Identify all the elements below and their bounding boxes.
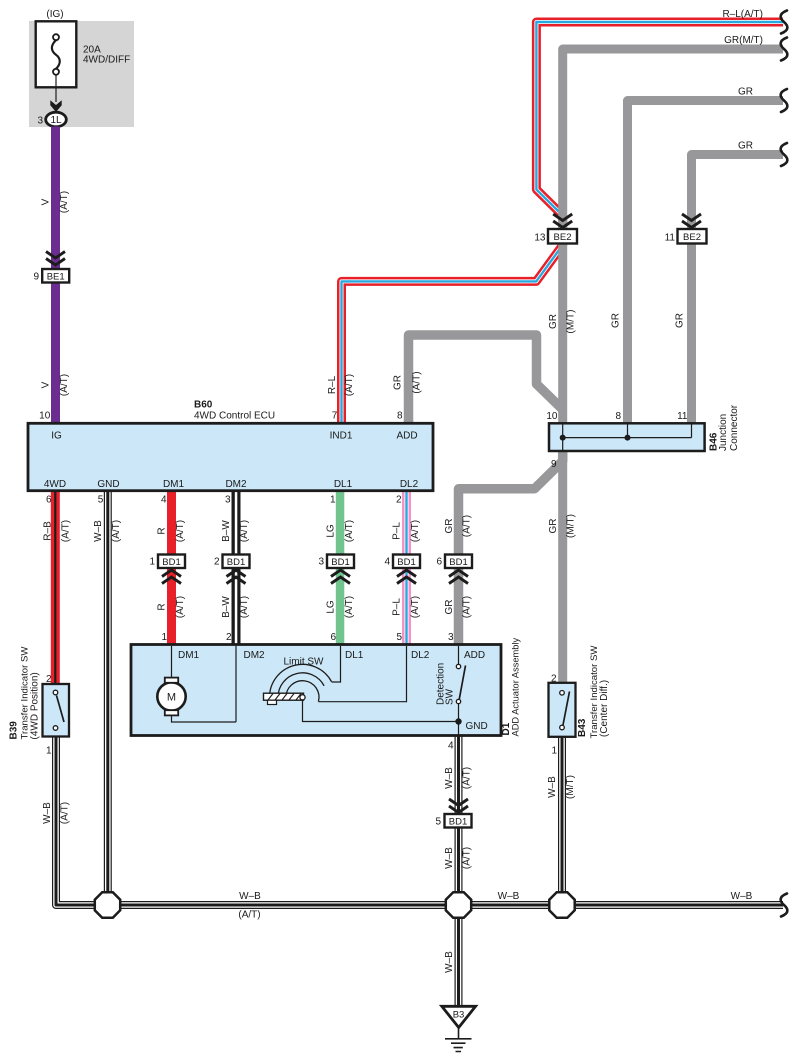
svg-text:(IG): (IG) xyxy=(46,9,63,20)
B43 name label xyxy=(577,645,610,739)
limit switch wiring DL1 xyxy=(332,646,341,682)
svg-text:BD1: BD1 xyxy=(227,557,245,568)
ECU top pin names xyxy=(51,431,417,442)
svg-text:8: 8 xyxy=(615,411,621,422)
svg-text:1: 1 xyxy=(551,746,557,757)
svg-text:SW: SW xyxy=(444,688,455,705)
svg-text:ADD: ADD xyxy=(396,431,417,442)
svg-text:V: V xyxy=(41,198,52,205)
svg-text:2: 2 xyxy=(226,632,232,643)
svg-text:2: 2 xyxy=(214,557,220,568)
svg-text:11: 11 xyxy=(665,233,676,244)
svg-text:BD1: BD1 xyxy=(331,557,349,568)
svg-text:LG: LG xyxy=(326,524,337,538)
label LG (A/T) above BD1 xyxy=(326,520,356,542)
wire R-L from right edge to BE2 xyxy=(536,22,783,230)
wire continuation curl GR upper xyxy=(781,89,788,112)
svg-text:GR: GR xyxy=(393,375,404,390)
svg-text:R: R xyxy=(157,527,168,534)
label R-L (A/T) at IND1 xyxy=(327,374,355,396)
svg-text:1L: 1L xyxy=(50,115,62,126)
fuse 20A 4WD/DIFF xyxy=(36,21,77,87)
svg-text:Junction: Junction xyxy=(718,414,729,451)
ground symbol xyxy=(445,1028,472,1052)
svg-text:BD1: BD1 xyxy=(397,557,415,568)
svg-text:DM2: DM2 xyxy=(244,650,266,661)
svg-text:13: 13 xyxy=(534,233,546,244)
node GND of actuator xyxy=(455,718,487,735)
connector 1L xyxy=(46,112,67,127)
label W-B (M/T) at B43 xyxy=(547,775,576,799)
svg-text:2: 2 xyxy=(396,495,402,506)
wire continuation curl GR(M/T) xyxy=(781,38,788,61)
connector BE1 pin 9 xyxy=(33,269,69,283)
svg-text:5: 5 xyxy=(435,817,441,828)
svg-text:GR(M/T): GR(M/T) xyxy=(724,35,763,46)
svg-text:B39: B39 xyxy=(9,721,20,740)
svg-text:(A/T): (A/T) xyxy=(239,596,250,618)
svg-text:DL1: DL1 xyxy=(334,479,353,490)
ECU bottom pin numbers xyxy=(46,495,402,506)
svg-text:(A/T): (A/T) xyxy=(462,767,473,789)
label W-B (A/T) at GND xyxy=(93,520,122,542)
svg-text:(M/T): (M/T) xyxy=(565,775,576,799)
limit switch arcs xyxy=(270,664,332,701)
svg-text:(A/T): (A/T) xyxy=(175,520,186,542)
svg-text:BD1: BD1 xyxy=(449,816,467,827)
svg-text:(A/T): (A/T) xyxy=(175,596,186,618)
svg-text:W–B: W–B xyxy=(444,951,455,973)
svg-text:(A/T): (A/T) xyxy=(344,596,355,618)
wire GR third xyxy=(692,155,784,425)
svg-text:7: 7 xyxy=(332,410,338,421)
svg-text:DM1: DM1 xyxy=(163,479,185,490)
svg-text:W–B: W–B xyxy=(42,802,53,824)
svg-text:GR: GR xyxy=(444,519,455,534)
svg-text:GR: GR xyxy=(611,313,622,328)
limit switch hatched bar xyxy=(264,693,304,704)
label V (A/T) above BE1 xyxy=(41,191,71,213)
wire GR(M/T) main vertical xyxy=(563,49,783,683)
svg-text:BE2: BE2 xyxy=(683,232,701,243)
svg-text:(A/T): (A/T) xyxy=(462,515,473,537)
svg-text:2: 2 xyxy=(46,674,52,685)
svg-text:GR: GR xyxy=(444,600,455,615)
svg-text:B–W: B–W xyxy=(221,520,232,542)
svg-text:(A/T): (A/T) xyxy=(60,802,71,824)
svg-text:1: 1 xyxy=(161,632,167,643)
svg-text:GR: GR xyxy=(548,314,559,329)
svg-text:IG: IG xyxy=(51,431,62,442)
svg-text:GR: GR xyxy=(738,87,753,98)
svg-text:4: 4 xyxy=(161,495,167,506)
svg-text:LG: LG xyxy=(326,600,337,614)
svg-text:(A/T): (A/T) xyxy=(412,371,423,393)
connector BD1 pin 6 xyxy=(436,555,472,569)
svg-text:(A/T): (A/T) xyxy=(239,520,250,542)
label P-L (A/T) below BD1 xyxy=(392,596,422,618)
actuator pin numbers above box xyxy=(161,632,454,643)
svg-text:R–B: R–B xyxy=(43,521,54,541)
svg-text:(A/T): (A/T) xyxy=(238,910,260,921)
svg-text:(A/T): (A/T) xyxy=(59,374,70,396)
wire continuation curl R-L xyxy=(781,11,788,34)
svg-text:1: 1 xyxy=(330,495,336,506)
op block B60 4WD Control ECU box xyxy=(28,423,433,490)
label LG (A/T) below BD1 xyxy=(326,596,356,618)
ground B3 xyxy=(442,1006,476,1027)
ECU title B60 4WD Control ECU xyxy=(194,400,275,422)
B43 pin numbers xyxy=(551,674,558,757)
svg-text:ADD: ADD xyxy=(464,650,485,661)
label GR (A/T) above BD1 xyxy=(444,515,473,537)
svg-text:(A/T): (A/T) xyxy=(344,520,355,542)
svg-text:B43: B43 xyxy=(577,718,588,737)
svg-text:W–B: W–B xyxy=(731,891,753,902)
svg-text:R–L: R–L xyxy=(327,375,338,394)
connector BE2 pin 13 xyxy=(534,229,577,244)
svg-text:DM2: DM2 xyxy=(225,479,247,490)
limit switch pivot xyxy=(300,695,305,700)
svg-text:B60: B60 xyxy=(194,400,213,411)
connector BD1 pin 5 xyxy=(435,814,471,828)
arrow into BD1 pin 2 xyxy=(227,570,246,584)
svg-text:3: 3 xyxy=(448,632,454,643)
label B-W (A/T) below BD1 xyxy=(221,596,250,619)
B39 pin numbers xyxy=(46,674,52,757)
svg-text:DL1: DL1 xyxy=(345,650,364,661)
arrow into BD1 pin 6 xyxy=(449,570,468,584)
svg-text:Limit SW: Limit SW xyxy=(284,657,325,668)
svg-text:6: 6 xyxy=(436,557,442,568)
wire W-B ECU GND down xyxy=(104,491,112,893)
label W-B (A/T) at B39 xyxy=(42,802,71,824)
svg-text:B–W: B–W xyxy=(221,596,232,618)
wire R-B 4WD to B39 xyxy=(51,491,60,685)
svg-text:(M/T): (M/T) xyxy=(566,514,577,538)
fuse value label xyxy=(83,44,130,65)
svg-text:P–L: P–L xyxy=(392,598,403,616)
wire continuation curl W-B xyxy=(781,894,788,917)
svg-text:(A/T): (A/T) xyxy=(111,520,122,542)
wire LG DL1 xyxy=(336,491,345,645)
limit switch wiring DL2 xyxy=(318,646,406,702)
svg-text:W–B: W–B xyxy=(547,776,558,798)
wire GR second xyxy=(628,101,784,425)
svg-text:M: M xyxy=(167,692,176,704)
detection switch xyxy=(456,646,465,722)
svg-text:11: 11 xyxy=(677,411,688,422)
connector BD1 pin 1 xyxy=(149,555,185,569)
arrow into BD1 pin 5 xyxy=(449,799,468,813)
connector BD1 pin 4 xyxy=(384,555,420,569)
svg-text:(A/T): (A/T) xyxy=(462,596,473,618)
svg-text:6: 6 xyxy=(330,632,336,643)
svg-text:3: 3 xyxy=(225,495,231,506)
label W-B (A/T) actuator GND upper xyxy=(444,767,473,789)
svg-text:GR: GR xyxy=(675,313,686,328)
switch B43 Transfer Indicator SW (Center Diff.) xyxy=(549,683,576,737)
label GR (A/T) below BD1 xyxy=(444,596,473,618)
svg-text:W–B: W–B xyxy=(498,891,520,902)
svg-text:DM1: DM1 xyxy=(178,650,200,661)
svg-text:BD1: BD1 xyxy=(449,557,467,568)
junction connector B46 box xyxy=(549,423,705,451)
label R (A/T) below BD1 xyxy=(157,596,187,618)
junction node left xyxy=(95,892,120,917)
arrow into BE2 pin 11 xyxy=(682,214,701,228)
svg-text:10: 10 xyxy=(546,411,558,422)
svg-text:(A/T): (A/T) xyxy=(344,374,355,396)
svg-text:DL2: DL2 xyxy=(400,479,419,490)
svg-text:(A/T): (A/T) xyxy=(410,596,421,618)
wire continuation curl GR lower xyxy=(781,143,788,166)
svg-text:R: R xyxy=(157,603,168,610)
svg-text:W–B: W–B xyxy=(444,767,455,789)
ECU top pin numbers xyxy=(39,410,403,421)
svg-text:(Center Diff.): (Center Diff.) xyxy=(599,680,610,737)
label R (A/T) above BD1 xyxy=(157,520,187,542)
arrow into BE1 xyxy=(46,252,65,266)
svg-text:(A/T): (A/T) xyxy=(462,847,473,869)
wire R-L from BE2 to ECU IND1 xyxy=(342,242,563,424)
svg-text:Connector: Connector xyxy=(729,404,740,451)
detection switch label xyxy=(435,663,455,705)
label W-B (A/T) bottom left run xyxy=(238,891,261,921)
svg-text:ADD Actuator Assembly: ADD Actuator Assembly xyxy=(511,637,521,736)
wire R DM1 xyxy=(167,491,176,645)
arrow into 1L xyxy=(50,100,61,112)
arrow into BE2 pin 13 xyxy=(553,214,572,228)
svg-text:P–L: P–L xyxy=(392,522,403,540)
label R-B (A/T) xyxy=(43,520,72,542)
connector BD1 pin 2 xyxy=(214,555,250,569)
label P-L (A/T) above BD1 xyxy=(392,520,422,542)
switch B39 Transfer Indicator SW (4WD Position) xyxy=(43,684,70,737)
label GR (M/T) above B46 xyxy=(548,310,577,334)
arrow into BD1 pin 4 xyxy=(397,570,416,584)
svg-text:6: 6 xyxy=(46,495,52,506)
svg-text:1: 1 xyxy=(46,746,52,757)
svg-text:(A/T): (A/T) xyxy=(410,520,421,542)
svg-text:R–L(A/T): R–L(A/T) xyxy=(722,9,763,20)
wire fuse to connector 1L xyxy=(55,75,57,102)
wire GR(A/T) B46 pin 9 to actuator ADD xyxy=(459,450,563,645)
svg-text:4WD: 4WD xyxy=(44,479,66,490)
label V (A/T) below BE1 xyxy=(41,374,71,396)
wire GR(A/T) ECU ADD to B46 pin 10 xyxy=(409,335,563,424)
limit switch to GND wiring xyxy=(303,700,459,722)
svg-text:GR: GR xyxy=(738,141,753,152)
svg-text:GR: GR xyxy=(548,519,559,534)
svg-text:W–B: W–B xyxy=(239,891,261,902)
svg-text:5: 5 xyxy=(98,495,104,506)
junction node right xyxy=(549,892,574,917)
label GR (A/T) at ADD xyxy=(393,371,423,393)
wire V violet IG feed xyxy=(51,127,60,425)
svg-text:3: 3 xyxy=(318,557,324,568)
svg-text:B3: B3 xyxy=(453,1010,465,1021)
svg-text:V: V xyxy=(41,381,52,388)
wire W-B actuator GND down xyxy=(455,735,463,893)
svg-text:4WD Control ECU: 4WD Control ECU xyxy=(194,411,275,422)
B39 name label xyxy=(9,646,41,740)
svg-text:4: 4 xyxy=(384,557,390,568)
op block D1 ADD Actuator Assembly box xyxy=(131,645,501,736)
svg-text:(M/T): (M/T) xyxy=(566,310,577,334)
B46 name label xyxy=(709,404,741,451)
svg-text:(A/T): (A/T) xyxy=(61,520,72,542)
ECU bottom pin names xyxy=(44,479,419,490)
arrow into BD1 pin 1 xyxy=(162,570,181,584)
motor M internal wiring xyxy=(172,646,237,722)
B46 pin numbers xyxy=(546,411,688,470)
svg-text:BE1: BE1 xyxy=(47,271,65,282)
svg-text:W–B: W–B xyxy=(93,520,104,542)
svg-text:5: 5 xyxy=(396,632,402,643)
connector BE2 pin 11 xyxy=(665,229,707,244)
svg-text:10: 10 xyxy=(39,410,51,421)
ignition power panel xyxy=(29,21,134,127)
connector BD1 pin 3 xyxy=(318,555,354,569)
wire B-W DM2 xyxy=(232,491,241,645)
svg-text:4: 4 xyxy=(448,741,454,752)
svg-text:3: 3 xyxy=(37,116,43,127)
B46 internal wiring xyxy=(560,424,692,451)
label B-W (A/T) above BD1 xyxy=(221,520,250,543)
wire W-B B39 to junction and main horizontal run xyxy=(56,736,783,905)
junction node center xyxy=(446,892,471,917)
motor M xyxy=(157,678,185,716)
label W-B (A/T) actuator GND lower xyxy=(444,847,473,869)
actuator name label xyxy=(501,637,521,736)
svg-text:(4WD Position): (4WD Position) xyxy=(30,672,41,739)
svg-text:2: 2 xyxy=(551,674,557,685)
wire W-B B43 down xyxy=(558,737,566,893)
svg-text:GND: GND xyxy=(97,479,119,490)
svg-text:W–B: W–B xyxy=(444,847,455,869)
svg-text:GND: GND xyxy=(466,721,488,732)
svg-text:IND1: IND1 xyxy=(330,431,353,442)
svg-text:BD1: BD1 xyxy=(162,557,180,568)
svg-text:DL2: DL2 xyxy=(411,650,430,661)
svg-text:8: 8 xyxy=(397,410,403,421)
wire P-L DL2 xyxy=(402,491,411,645)
svg-text:4WD/DIFF: 4WD/DIFF xyxy=(83,54,130,65)
actuator pin names xyxy=(178,650,485,661)
svg-text:1: 1 xyxy=(149,557,155,568)
arrow into BD1 pin 3 xyxy=(331,570,350,584)
svg-text:(A/T): (A/T) xyxy=(59,191,70,213)
svg-text:BE2: BE2 xyxy=(554,232,572,243)
svg-text:9: 9 xyxy=(33,272,39,283)
svg-text:9: 9 xyxy=(551,459,557,470)
wire W-B junction to ground B3 xyxy=(455,917,463,1007)
label GR (M/T) below B46 xyxy=(548,514,577,538)
